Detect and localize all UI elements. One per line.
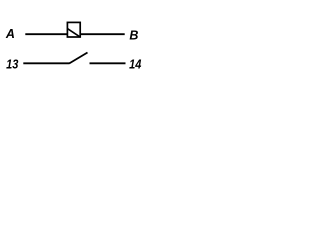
wire A to coil bbox=[25, 33, 67, 35]
svg-text:13: 13 bbox=[6, 57, 19, 72]
relay coil K1 (box with diagonal) bbox=[67, 22, 80, 37]
coil diagonal stroke bbox=[67, 29, 80, 37]
wire 13 to contact bbox=[23, 62, 69, 64]
contact blade (normally open switch) bbox=[69, 53, 87, 64]
svg-text:14: 14 bbox=[129, 57, 142, 72]
wire coil to B bbox=[80, 33, 125, 35]
wire contact to 14 bbox=[90, 62, 126, 64]
svg-text:A: A bbox=[5, 27, 15, 41]
svg-text:B: B bbox=[129, 29, 138, 43]
